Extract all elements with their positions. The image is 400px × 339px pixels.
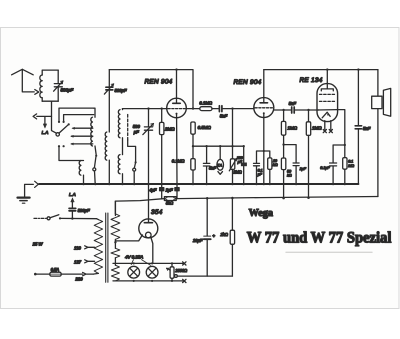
cathode capacitor 0.1uF bbox=[254, 151, 264, 184]
faint fold line bbox=[286, 251, 372, 253]
svg-text:220: 220 bbox=[74, 277, 83, 282]
svg-text:500pF: 500pF bbox=[115, 88, 127, 93]
svg-text:REN 904: REN 904 bbox=[145, 79, 173, 86]
svg-text:0.5A: 0.5A bbox=[51, 267, 60, 272]
speaker bbox=[372, 70, 391, 197]
HV secondary winding bbox=[111, 201, 120, 248]
svg-text:5nF: 5nF bbox=[289, 101, 297, 106]
hum potentiometer 1000 bbox=[167, 262, 233, 282]
lamp rail terminals bbox=[183, 262, 186, 283]
switch S2 bbox=[93, 155, 97, 184]
top rail left bbox=[109, 70, 193, 109]
fuse 0.5A bbox=[34, 267, 93, 276]
svg-text:5nF: 5nF bbox=[363, 126, 371, 131]
svg-text:1µF: 1µF bbox=[300, 167, 307, 171]
svg-text:354: 354 bbox=[151, 209, 163, 216]
tube V2 REN 904 bbox=[234, 79, 274, 118]
L.A mains terminal bbox=[69, 192, 90, 220]
T.A pickup terminal bbox=[217, 145, 224, 174]
grid leak 2M with 100pF bbox=[229, 145, 247, 184]
plate load 1M bbox=[281, 110, 297, 146]
output capacitor 5nF bbox=[355, 68, 370, 184]
svg-text:4V 0.25A: 4V 0.25A bbox=[125, 254, 143, 259]
svg-text:pF: pF bbox=[237, 160, 243, 164]
grid leak node V2 bbox=[231, 107, 233, 109]
band switch S1 bbox=[56, 123, 70, 136]
svg-text:Wega: Wega bbox=[249, 208, 274, 219]
top rail right bbox=[264, 69, 378, 71]
oscillator coil L3 bbox=[105, 132, 109, 184]
svg-text:5nF: 5nF bbox=[220, 114, 228, 119]
coupling capacitor 5nF bbox=[219, 106, 254, 119]
svg-text:L.A: L.A bbox=[42, 130, 49, 135]
antenna coupling coil L2 bbox=[79, 161, 83, 185]
filter capacitor 4uF bbox=[149, 184, 164, 199]
svg-text:1000Ω: 1000Ω bbox=[175, 268, 187, 273]
tube V3 RE 134 bbox=[300, 68, 338, 121]
resistor 50k bbox=[281, 145, 292, 199]
output wire V2 bbox=[274, 109, 291, 111]
wave trap capacitor 500pF bbox=[54, 70, 75, 101]
filter resistor 3k bbox=[162, 197, 177, 206]
svg-text:4µF: 4µF bbox=[149, 187, 157, 192]
V1 cathode lead bbox=[176, 118, 178, 184]
coupling capacitor 5nF second bbox=[289, 101, 319, 113]
svg-text:MΩ: MΩ bbox=[348, 164, 354, 168]
chassis bus connector bbox=[35, 181, 39, 187]
resistor 1k bbox=[220, 198, 234, 276]
tube V1 REN 904 bbox=[145, 79, 187, 118]
svg-text:5nF: 5nF bbox=[209, 166, 217, 171]
L.A arrow label bbox=[42, 117, 49, 135]
svg-text:10µF: 10µF bbox=[193, 238, 203, 243]
svg-text:kΩ: kΩ bbox=[273, 163, 278, 167]
dial lamps 4V bbox=[113, 254, 184, 282]
svg-text:REN 904: REN 904 bbox=[234, 79, 262, 86]
voltage taps bbox=[74, 246, 95, 282]
svg-text:1MΩ: 1MΩ bbox=[312, 125, 322, 130]
cathode resistor 10k bbox=[264, 151, 278, 184]
ground bbox=[18, 184, 34, 203]
oscillator trimmer 500pF bbox=[104, 70, 126, 132]
supply bus lower bbox=[115, 197, 378, 216]
reaction coil L5 bbox=[118, 155, 122, 184]
svg-text:T.A: T.A bbox=[217, 163, 223, 167]
grid resistor 2M bbox=[160, 107, 176, 184]
power transformer primary bbox=[93, 219, 102, 274]
branch wire to TA bbox=[192, 145, 244, 147]
feedback branch bbox=[320, 110, 346, 184]
svg-text:500pF: 500pF bbox=[61, 88, 75, 93]
antenna bbox=[12, 69, 39, 94]
wave trap coil bbox=[40, 70, 58, 101]
svg-text:1MΩ: 1MΩ bbox=[287, 125, 297, 130]
secondary coil L4 bbox=[118, 109, 122, 155]
V3 filament terminals bbox=[323, 121, 332, 133]
svg-text:+: + bbox=[212, 233, 215, 238]
svg-text:25 W: 25 W bbox=[32, 242, 44, 247]
svg-text:0.5MΩ: 0.5MΩ bbox=[198, 125, 212, 130]
svg-text:2MΩ: 2MΩ bbox=[164, 127, 175, 132]
svg-text:2MΩ: 2MΩ bbox=[232, 170, 242, 175]
wire trap to switch bbox=[52, 101, 57, 133]
L.A antenna input plug bbox=[33, 114, 51, 119]
grid wire node bbox=[123, 108, 168, 110]
electrolytic 10uF bbox=[193, 198, 216, 276]
svg-text:1kΩ: 1kΩ bbox=[220, 232, 228, 237]
tuning capacitor 500pF bbox=[133, 107, 154, 184]
main tuning coil L1 bbox=[91, 108, 96, 155]
switch lower contacts bbox=[58, 145, 84, 160]
grid leak wire bbox=[232, 109, 234, 159]
svg-text:0.1MΩ: 0.1MΩ bbox=[172, 158, 185, 163]
V1 plate lead to rail bbox=[175, 68, 177, 98]
svg-text:0.1µF: 0.1µF bbox=[320, 166, 330, 170]
coupling resistor 0.1M bbox=[199, 100, 218, 110]
resistor 0.1M right bbox=[343, 158, 355, 184]
resistor 0.1M lower bbox=[172, 158, 195, 170]
V2 plate to rail bbox=[263, 70, 265, 98]
bus junction dots bbox=[82, 183, 346, 186]
switch contact wires top bbox=[58, 108, 94, 123]
grid resistor 1M second bbox=[306, 110, 322, 198]
svg-text:W 77 und W 77 Spezial: W 77 und W 77 Spezial bbox=[247, 230, 392, 247]
svg-text:RE 134: RE 134 bbox=[300, 77, 323, 84]
svg-text:3kΩ: 3kΩ bbox=[166, 200, 174, 205]
svg-text:110: 110 bbox=[74, 246, 81, 251]
bus2 dots bbox=[206, 196, 310, 199]
filter capacitor 2uF bbox=[165, 184, 179, 199]
chassis bus bbox=[39, 183, 358, 185]
resistor 0.5M bbox=[191, 122, 212, 184]
rectifier filament winding bbox=[111, 248, 120, 265]
transformer core bbox=[106, 213, 108, 282]
mains switch bbox=[34, 215, 97, 220]
V2 cathode lead bbox=[263, 118, 265, 184]
rectifier 354 bbox=[115, 184, 162, 263]
lamp filament winding bbox=[111, 265, 119, 281]
svg-text:500pF: 500pF bbox=[78, 208, 90, 213]
switch contact wires from coil taps bbox=[71, 127, 93, 145]
capacitor 1uF bbox=[284, 145, 307, 184]
plate wire V1 bbox=[186, 107, 200, 109]
svg-text:L.A: L.A bbox=[69, 192, 76, 197]
svg-text:0.1MΩ: 0.1MΩ bbox=[199, 100, 212, 105]
svg-text:127: 127 bbox=[74, 260, 82, 265]
gang link dashed bbox=[127, 115, 129, 141]
svg-text:kΩ: kΩ bbox=[287, 174, 292, 178]
svg-text:pF: pF bbox=[133, 129, 139, 134]
capacitor 5nF shunt bbox=[203, 145, 216, 184]
svg-text:2µF: 2µF bbox=[165, 187, 174, 192]
switch S3 bbox=[128, 140, 137, 184]
